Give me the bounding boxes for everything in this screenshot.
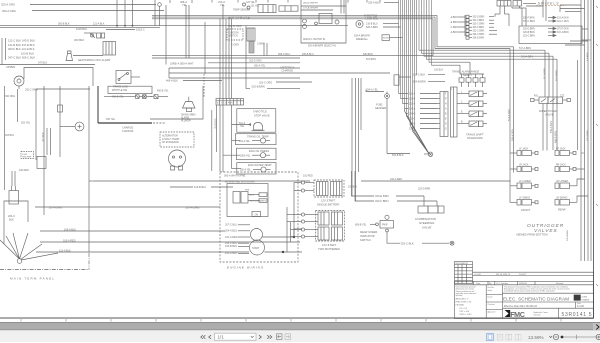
svg-text:Effective Date 2011-TR-450-0: Effective Date 2011-TR-450-03 xyxy=(504,305,538,308)
dash-dot tail xyxy=(153,122,166,124)
svg-text:524-A BRN/FR SELECT #1: 524-A BRN/FR SELECT #1 xyxy=(308,44,337,47)
svg-text:INDICATOR: INDICATOR xyxy=(360,234,375,238)
svg-text:.XXX ± .010: .XXX ± .010 xyxy=(459,311,469,313)
svg-text:306-A YEL: 306-A YEL xyxy=(254,64,266,67)
svg-text:323-F BRN: 323-F BRN xyxy=(473,27,485,29)
svg-text:.XX ± .03: .XX ± .03 xyxy=(459,308,467,310)
wire 333-C BLK xyxy=(387,241,400,243)
svg-text:H: H xyxy=(445,103,447,105)
travel solenoid connector xyxy=(440,92,448,137)
sol pigtails xyxy=(483,93,487,95)
amigo top feeds xyxy=(340,0,342,14)
pigtail squares left col xyxy=(535,152,538,155)
wire 106-A BLK xyxy=(40,230,225,232)
svg-text:102-B BLK: 102-B BLK xyxy=(21,51,34,55)
svg-text:TWO BATTERIES: TWO BATTERIES xyxy=(318,247,340,251)
starter M2 xyxy=(250,240,265,255)
svg-text:Division: Division xyxy=(534,314,541,316)
wire 520-A BRN xyxy=(383,26,401,28)
wire 101-A RED xyxy=(238,236,250,238)
svg-text:ENGINE FUEL SHUTDOWN: ENGINE FUEL SHUTDOWN xyxy=(225,181,255,183)
svg-text:SEAT/SWING LOCK ALARM: SEAT/SWING LOCK ALARM xyxy=(78,59,111,62)
wire corner xyxy=(89,180,94,182)
svg-text:102 RED: 102 RED xyxy=(19,169,29,172)
svg-text:RF JACK: RF JACK xyxy=(556,148,566,151)
svg-text:TRANS OIL TEMP: TRANS OIL TEMP xyxy=(247,134,269,138)
svg-text:520-A BRN: 520-A BRN xyxy=(366,26,378,29)
svg-text:103-A RED: 103-A RED xyxy=(63,239,76,242)
valve pigtail right xyxy=(563,99,568,101)
amigo wires xyxy=(301,5,346,7)
right margin segment xyxy=(577,60,579,150)
svg-text:Date: Date xyxy=(577,302,581,305)
svg-text:323-D ORG: 323-D ORG xyxy=(249,59,262,62)
wire 102-A RED right run xyxy=(361,180,510,182)
zone dark cell xyxy=(574,295,581,301)
battery cell 5 xyxy=(332,212,343,225)
svg-text:specified.: specified. xyxy=(456,295,464,297)
row bottom drops xyxy=(461,82,463,87)
svg-text:466-B BRN: 466-B BRN xyxy=(555,131,558,143)
connector sym X1 xyxy=(136,95,140,99)
svg-text:INFORMATION: INFORMATION xyxy=(456,262,469,265)
svg-text:SINGLE BATTERY: SINGLE BATTERY xyxy=(317,202,340,206)
drawing number box xyxy=(558,308,560,318)
wire 235-A BLU xyxy=(384,2,399,4)
sender gauge3 xyxy=(261,167,266,172)
svg-text:450-B YEL: 450-B YEL xyxy=(157,89,169,92)
svg-text:1618 BLK: 1618 BLK xyxy=(76,28,87,31)
wire to box4 xyxy=(232,168,242,170)
connector feeds top right xyxy=(523,3,536,5)
svg-text:323-C ORG: 323-C ORG xyxy=(259,81,272,84)
svg-text:PH 10 JUN 73: PH 10 JUN 73 xyxy=(496,274,511,276)
terminal strip mid line xyxy=(216,100,244,102)
wire to box2 xyxy=(232,140,241,142)
svg-text:300 BLK: 300 BLK xyxy=(74,38,85,42)
valve drop wires xyxy=(542,104,544,151)
svg-text:309-A YEL: 309-A YEL xyxy=(240,169,252,172)
row stubs xyxy=(461,74,463,78)
meter bus corners down xyxy=(437,15,514,46)
svg-text:332-C BRN: 332-C BRN xyxy=(473,31,485,33)
svg-text:120-C BLK: 120-C BLK xyxy=(413,74,426,77)
svg-text:A: A xyxy=(445,107,447,110)
svg-text:323-E BRN: 323-E BRN xyxy=(375,194,389,198)
svg-text:VALVE: VALVE xyxy=(545,113,554,117)
svg-text:LR JACK: LR JACK xyxy=(519,164,529,167)
svg-text:501-A: 501-A xyxy=(239,122,246,125)
resistor block xyxy=(249,42,254,54)
svg-text:VIEWED FROM BOTTOM: VIEWED FROM BOTTOM xyxy=(516,233,548,237)
svg-text:207-C BLU: 207-C BLU xyxy=(225,224,238,227)
swivel feed verticals xyxy=(499,6,501,14)
valve arrows xyxy=(541,99,546,103)
svg-text:347-C BLK 606-C BLK: 347-C BLK 606-C BLK xyxy=(8,56,35,60)
junction dots xyxy=(116,25,133,27)
svg-text:333-C BLK: 333-C BLK xyxy=(401,242,414,246)
svg-text:326-E BRN: 326-E BRN xyxy=(473,38,485,40)
col separators xyxy=(485,285,487,319)
left pin rows xyxy=(466,15,472,39)
svg-text:326-A BRN: 326-A BRN xyxy=(566,230,569,241)
wire stub xyxy=(131,76,140,78)
svg-text:106-A BLK: 106-A BLK xyxy=(64,228,76,231)
wire lower xyxy=(152,57,300,59)
rear steer switch body xyxy=(380,221,394,229)
wire vertical x4.5 xyxy=(4,86,6,190)
svg-text:517-A BRN: 517-A BRN xyxy=(519,47,531,50)
svg-text:300-B BLK: 300-B BLK xyxy=(58,23,70,26)
outrigger link xyxy=(576,168,585,170)
svg-text:6-4-90: 6-4-90 xyxy=(577,305,585,308)
svg-text:504-B BLK: 504-B BLK xyxy=(392,154,404,157)
left connector bracket xyxy=(464,15,466,36)
wire 323-C ORG xyxy=(276,81,312,83)
horn H1 xyxy=(14,76,24,86)
riser single xyxy=(293,183,295,238)
wire to gauge xyxy=(60,126,75,128)
svg-text:REAR: REAR xyxy=(558,208,566,212)
svg-text:B: B xyxy=(445,113,447,115)
vertical link wire2 xyxy=(290,222,292,242)
prev view icon xyxy=(277,334,283,340)
wire 324-A YEL xyxy=(366,90,384,92)
outrigger left feed2 xyxy=(513,47,515,173)
connector pin ticks xyxy=(437,93,440,95)
wire 380-A WHT xyxy=(208,62,300,64)
harness box top xyxy=(169,67,300,69)
terminal lug xyxy=(17,259,22,264)
wire 455 bus xyxy=(152,55,433,57)
svg-text:Checked: Checked xyxy=(488,304,495,306)
svg-text:FEE: FEE xyxy=(245,190,250,192)
wires to two battery xyxy=(287,214,301,216)
svg-text:W/ STANDARD: W/ STANDARD xyxy=(162,141,179,144)
svg-text:LF LOWER: LF LOWER xyxy=(519,181,531,183)
vertical bus wires to strip xyxy=(219,86,221,99)
eng water temp box xyxy=(237,163,276,174)
scattered wire labels xyxy=(5,23,558,191)
svg-text:324-A YEL: 324-A YEL xyxy=(366,88,379,91)
switch input connector xyxy=(376,223,379,226)
info mini table xyxy=(455,262,473,284)
directional valve body xyxy=(539,97,548,104)
connector sym X2 xyxy=(143,95,147,99)
ground lug X xyxy=(450,241,454,245)
wire starter ground xyxy=(265,251,303,253)
wire 207-A ORG xyxy=(35,206,220,208)
label wires column xyxy=(238,224,250,226)
FMC logo xyxy=(505,310,525,319)
wire vertical x17.5 xyxy=(17,89,19,122)
svg-text:347-A BRN: 347-A BRN xyxy=(586,130,589,141)
steering valve body xyxy=(418,206,428,213)
wire 323-E BRN corner xyxy=(352,171,375,196)
svg-text:METER/GA: METER/GA xyxy=(229,16,251,20)
jack row2 LF xyxy=(517,167,521,172)
freefall send box xyxy=(382,35,390,41)
terminal strip TB1 xyxy=(216,99,244,106)
trans sol 1 xyxy=(469,91,479,97)
mid col rows xyxy=(486,294,502,296)
vertical wire x223 xyxy=(222,5,224,15)
wire vertical x159.5 xyxy=(159,6,161,25)
svg-text:CHARGE: CHARGE xyxy=(282,69,294,73)
page bottom border xyxy=(0,317,594,319)
wire down from switch xyxy=(386,232,388,241)
sender gauge xyxy=(260,138,265,143)
svg-text:323-G BRN: 323-G BRN xyxy=(523,35,535,37)
svg-text:FUEL: FUEL xyxy=(376,103,383,107)
scrollbar right arrow xyxy=(596,325,599,330)
zoom slider track xyxy=(561,336,598,338)
junction dot J2 xyxy=(282,251,284,253)
svg-text:113-A BLK: 113-A BLK xyxy=(59,249,71,252)
vertical link wire xyxy=(286,207,288,252)
zone tick marks bottom margin xyxy=(21,319,561,322)
svg-text:207-A ORG: 207-A ORG xyxy=(49,206,62,209)
relay K3 xyxy=(37,157,46,169)
nav next btn xyxy=(259,335,261,339)
svg-text:SOLENOIDS: SOLENOIDS xyxy=(467,136,483,140)
next view icon xyxy=(285,334,291,340)
pigtail squares right col xyxy=(573,152,576,155)
svg-text:C-BRN: C-BRN xyxy=(257,43,265,46)
trans sol 4 xyxy=(469,121,479,127)
wire 103-C xyxy=(238,242,249,244)
battery box single dashed xyxy=(314,180,344,197)
svg-text:1: 1 xyxy=(451,89,453,91)
svg-text:12V START: 12V START xyxy=(321,199,335,203)
svg-text:BLK/CLEARING: BLK/CLEARING xyxy=(250,200,266,203)
svg-text:455-C BLU: 455-C BLU xyxy=(278,53,291,56)
wire 102-A RED long xyxy=(94,180,310,182)
layout icon single selected xyxy=(487,334,494,341)
nav prev btn xyxy=(209,335,211,339)
svg-text:210-B BLU: 210-B BLU xyxy=(366,22,378,25)
battery box two dashed xyxy=(316,211,345,242)
throttle stop valve box xyxy=(237,109,276,133)
svg-text:204-C: 204-C xyxy=(8,214,15,218)
wire 504-B BLK xyxy=(387,153,410,155)
battery cell 2 xyxy=(331,182,343,196)
svg-text:L9R5/-A 380-A WHT: L9R5/-A 380-A WHT xyxy=(170,61,194,65)
svg-text:207-A ORG: 207-A ORG xyxy=(186,205,200,209)
engine inner module box xyxy=(227,184,268,217)
panel outline xyxy=(4,201,28,244)
svg-text:JAY-A GRN/FR: JAY-A GRN/FR xyxy=(303,2,318,5)
svg-text:235-A BLU: 235-A BLU xyxy=(368,2,380,5)
pins right of left group xyxy=(489,16,494,18)
seat wire xyxy=(84,32,96,34)
svg-text:323-A ORG: 323-A ORG xyxy=(1,3,15,7)
zoom out button xyxy=(553,334,558,339)
svg-text:524-B BRN: 524-B BRN xyxy=(413,80,426,83)
page right border xyxy=(593,0,595,318)
wire bracket left xyxy=(5,38,7,60)
svg-text:332-F BRN: 332-F BRN xyxy=(523,17,535,19)
wire 523-B BRN corner xyxy=(246,86,250,88)
rear steer switch stem circle xyxy=(385,215,389,219)
wire vertical x44 xyxy=(43,86,45,215)
svg-text:520 BRN: 520 BRN xyxy=(363,53,373,56)
svg-text:504-A BRN: 504-A BRN xyxy=(512,129,515,141)
svg-text:326-C BRN: 326-C BRN xyxy=(473,34,485,36)
svg-text:CHASSIS: CHASSIS xyxy=(122,129,134,133)
slider mid tick xyxy=(576,335,578,339)
engine frame corner xyxy=(211,110,213,171)
svg-text:STOP VALVE: STOP VALVE xyxy=(254,113,270,117)
svg-text:323-B ORG: 323-B ORG xyxy=(228,24,242,28)
svg-text:101-A RED: 101-A RED xyxy=(225,236,238,239)
swivel feed corners xyxy=(495,13,500,15)
wire to horn xyxy=(188,97,190,102)
svg-text:SELECT: SELECT xyxy=(463,74,473,77)
relay feed wires xyxy=(11,171,13,186)
svg-text:101 RED: 101 RED xyxy=(303,174,313,177)
alarm horn A1 xyxy=(66,51,73,61)
wire vertical x89 xyxy=(88,86,90,252)
svg-text:LF JACK: LF JACK xyxy=(519,148,529,151)
wire to alarm xyxy=(73,55,103,57)
svg-text:REAR STEER: REAR STEER xyxy=(360,230,377,234)
switch bottom node xyxy=(386,229,389,232)
bundle extra wires xyxy=(415,0,417,131)
wire links xyxy=(248,194,259,196)
right margin bus xyxy=(580,0,582,261)
throttle lock solenoid xyxy=(356,20,363,27)
center bus risers to top xyxy=(219,19,221,86)
svg-text:332-D BRN: 332-D BRN xyxy=(473,17,485,19)
sender gauge2 xyxy=(260,153,265,158)
svg-text:1618 C: 1618 C xyxy=(136,28,145,32)
swivels underline xyxy=(536,5,564,7)
supplemental density 2 xyxy=(84,0,546,131)
svg-text:103-B BLK: 103-B BLK xyxy=(225,245,237,248)
svg-text:-A BRN: -A BRN xyxy=(450,16,458,19)
svg-text:204-A BLU: 204-A BLU xyxy=(225,230,237,233)
amigo inner circles xyxy=(303,19,307,23)
svg-text:101-A BLK: 101-A BLK xyxy=(225,252,237,255)
svg-text:324-C DKN: 324-C DKN xyxy=(557,21,569,23)
wire 1618 POS drop xyxy=(216,105,218,152)
svg-text:Drawn: Drawn xyxy=(488,297,493,299)
engine dashed enclosure xyxy=(220,172,298,262)
svg-text:101417: 101417 xyxy=(519,274,527,276)
temp sender terminals xyxy=(243,3,246,6)
main horizontal bus wire xyxy=(0,25,348,27)
junction dot J xyxy=(293,236,295,238)
svg-text:FREEFALL: FREEFALL xyxy=(356,38,369,41)
trans sol 2 xyxy=(469,101,479,107)
wire 103-B xyxy=(238,245,249,247)
right connector box xyxy=(519,26,582,44)
svg-text:LR LOWER: LR LOWER xyxy=(556,181,568,183)
svg-text:521 BRN: 521 BRN xyxy=(366,58,376,61)
layout icon facing continuous xyxy=(516,334,519,340)
zoom dropdown arrow xyxy=(549,336,552,338)
wire 323-A ORG xyxy=(30,4,156,6)
eng oil press box xyxy=(237,148,277,160)
wire 113-A BLK xyxy=(36,251,249,253)
svg-text:SEND: SEND xyxy=(383,38,389,40)
svg-text:ALARM: ALARM xyxy=(180,117,189,120)
switch box S2 xyxy=(116,71,131,84)
wire vertical x155 xyxy=(154,0,156,26)
svg-text:ENG WATER TEMP: ENG WATER TEMP xyxy=(248,163,272,167)
svg-text:347 BLK: 347 BLK xyxy=(38,61,48,64)
svg-text:LF SWING: LF SWING xyxy=(519,198,530,200)
svg-text:MAIN TERM PANEL: MAIN TERM PANEL xyxy=(10,277,55,281)
svg-text:TRANS SHIFT: TRANS SHIFT xyxy=(466,132,484,136)
main block frame xyxy=(455,285,594,319)
svg-text:YEL: YEL xyxy=(182,3,187,7)
svg-text:323 BLK: 323 BLK xyxy=(5,134,15,137)
svg-text:375-F DKN: 375-F DKN xyxy=(557,28,569,30)
fuel sender drop wire xyxy=(386,98,388,153)
harness box bottom xyxy=(169,77,300,79)
left frame wire xyxy=(150,86,203,119)
svg-text:375-C BRN: 375-C BRN xyxy=(523,21,535,23)
svg-text:SENDER: SENDER xyxy=(375,106,386,110)
svg-text:TRANS LOCK: TRANS LOCK xyxy=(113,85,129,88)
right rows xyxy=(503,292,594,294)
wire to box3 xyxy=(223,154,240,156)
svg-text:264-A YEL: 264-A YEL xyxy=(239,140,251,143)
steering valve stem xyxy=(436,201,438,206)
harness mid wire xyxy=(169,72,390,74)
svg-text:300-F BLK 121-E BLK: 300-F BLK 121-E BLK xyxy=(8,47,35,51)
svg-text:-C BRN: -C BRN xyxy=(450,27,458,29)
svg-text:AMIGO L SWITCH #1: AMIGO L SWITCH #1 xyxy=(303,38,326,41)
jack sol RF xyxy=(555,151,559,156)
charge chassis thick wire xyxy=(98,122,152,124)
bus drop wires xyxy=(219,105,221,172)
svg-text:-A BRN: -A BRN xyxy=(450,31,458,34)
svg-text:Revised: Revised xyxy=(556,283,563,285)
seat belt switch xyxy=(91,34,94,37)
layout icon continuous xyxy=(497,334,503,340)
svg-text:320-D BRN: 320-D BRN xyxy=(523,28,535,30)
svg-text:LOCK SOL: LOCK SOL xyxy=(366,18,379,21)
svg-text:223-A DKN: 223-A DKN xyxy=(557,16,569,19)
wire vertical x36 xyxy=(35,89,37,160)
svg-text:LR SWING: LR SWING xyxy=(556,198,568,200)
svg-text:IGNITION: IGNITION xyxy=(229,32,240,34)
outrigger left feed xyxy=(509,49,511,203)
zoom in button xyxy=(596,334,600,339)
wire 101-A BLK xyxy=(238,252,249,254)
svg-text:53R0141 5: 53R0141 5 xyxy=(562,312,593,318)
fuse F1 on vertical xyxy=(59,86,61,157)
wire 466-A BLK xyxy=(183,80,222,82)
battery terminals single xyxy=(301,181,304,184)
svg-text:501-A BRN: 501-A BRN xyxy=(521,55,533,58)
svg-text:300 ORG: 300 ORG xyxy=(5,95,15,98)
svg-text:123-B BLU: 123-B BLU xyxy=(194,186,206,189)
wire 103-A RED xyxy=(40,241,300,243)
wire to single battery xyxy=(294,182,301,184)
svg-text:455: 455 xyxy=(534,95,539,97)
wire 210-B BLU xyxy=(383,22,399,24)
svg-text:YEL: YEL xyxy=(220,3,225,7)
vertical wire x186 xyxy=(185,5,187,58)
wire upper bus xyxy=(0,64,95,66)
jack sol LF xyxy=(517,151,521,156)
svg-text:F: F xyxy=(445,93,447,95)
gauge G1 xyxy=(75,122,84,131)
